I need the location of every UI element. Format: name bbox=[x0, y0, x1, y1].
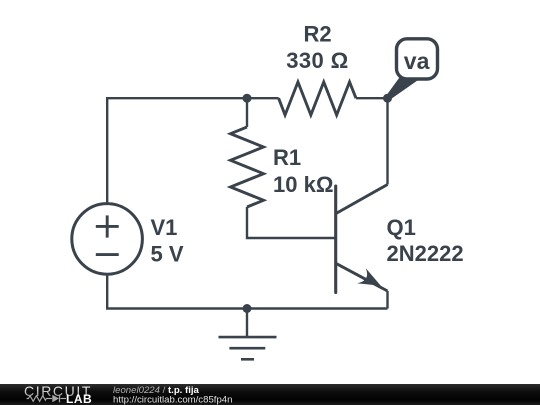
svg-text:Q1: Q1 bbox=[387, 215, 416, 240]
svg-text:2N2222: 2N2222 bbox=[387, 241, 464, 266]
svg-text:va: va bbox=[404, 48, 430, 74]
svg-text:V1: V1 bbox=[151, 215, 178, 240]
svg-text:R2: R2 bbox=[303, 22, 331, 47]
svg-text:330 Ω: 330 Ω bbox=[286, 48, 348, 73]
svg-text:LAB: LAB bbox=[66, 392, 92, 405]
svg-text:R1: R1 bbox=[273, 145, 301, 170]
svg-text:10 kΩ: 10 kΩ bbox=[273, 172, 333, 197]
svg-text:5 V: 5 V bbox=[151, 242, 184, 267]
svg-text:http://circuitlab.com/c85fp4n: http://circuitlab.com/c85fp4n bbox=[113, 395, 232, 405]
